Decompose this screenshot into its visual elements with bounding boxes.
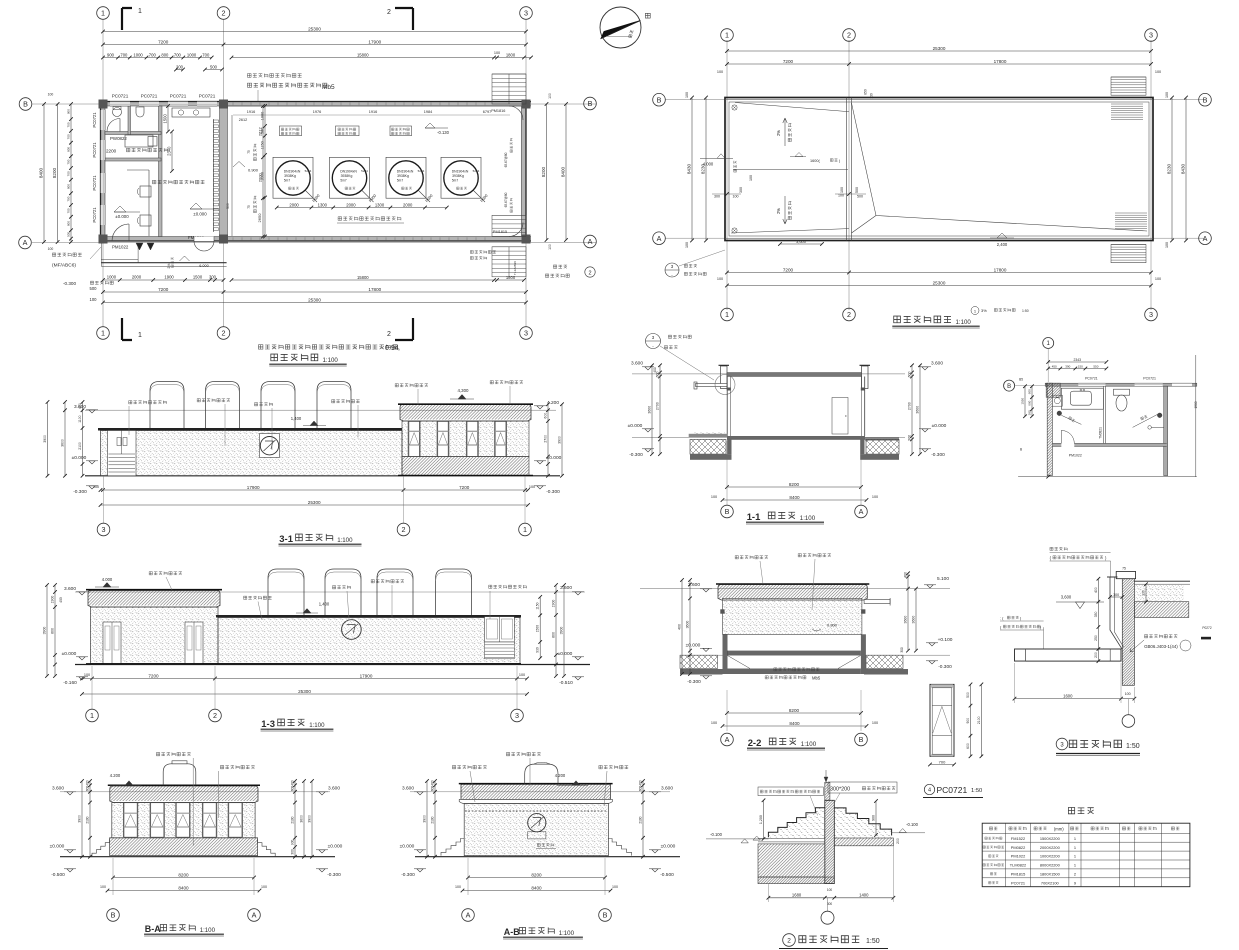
svg-text:B: B (588, 99, 593, 108)
canopy right note (1144, 635, 1177, 638)
svg-text:100: 100 (1165, 242, 1169, 248)
svg-text:25300: 25300 (298, 689, 311, 694)
svg-text:1-1: 1-1 (747, 512, 761, 523)
svg-text:1: 1 (101, 9, 105, 18)
roof main valley line upper (852, 103, 877, 216)
elev31 left dim chain (82, 402, 84, 476)
elev13 bubbles (91, 666, 93, 709)
svg-text:PM0822: PM0822 (1011, 845, 1026, 850)
svg-text:2%: 2% (776, 130, 781, 136)
elevBA left dims (89, 781, 91, 857)
grid bubble 2 bottom (217, 327, 230, 340)
floor plan grid row A line (32, 242, 596, 244)
svg-text:400: 400 (639, 780, 643, 786)
svg-text:2: 2 (1074, 872, 1076, 877)
svg-text:1000: 1000 (261, 112, 265, 120)
toilet sink (1070, 391, 1091, 405)
elevAB bubble B (599, 909, 612, 922)
grid bubble B left (19, 98, 32, 111)
plan top small dimensions row (103, 57, 212, 59)
svg-text:400: 400 (86, 780, 90, 786)
sect11 bottom dim 8400 (723, 499, 867, 501)
roof left dim 8230 (705, 98, 707, 241)
plan room store bench (125, 135, 153, 147)
svg-text:-0.300: -0.300 (687, 679, 701, 685)
roof bubble 3 top (1145, 29, 1158, 42)
svg-text:15800: 15800 (357, 52, 369, 57)
svg-text:100: 100 (548, 93, 552, 99)
svg-text:1680: 1680 (792, 893, 802, 898)
svg-text:2: 2 (402, 525, 406, 534)
stair right slab hatch (834, 838, 893, 846)
toilet window2 top wall (1135, 383, 1163, 386)
canopy slab end cap (1015, 649, 1026, 661)
sect11 bubble A (855, 505, 868, 518)
svg-text:8400: 8400 (39, 167, 44, 178)
north arrow circle (600, 7, 641, 48)
svg-text:-0.300: -0.300 (629, 452, 643, 458)
svg-text:2000: 2000 (132, 275, 142, 280)
svg-text:100: 100 (612, 885, 618, 889)
toilet mid partition (1102, 386, 1104, 444)
roof grid row B line (665, 99, 1205, 101)
svg-text:3.600: 3.600 (631, 361, 643, 367)
svg-text:75: 75 (1122, 567, 1126, 571)
toilet door knob right (1157, 413, 1162, 418)
elevAB stairs left (441, 839, 464, 856)
canopy wall hatch (1122, 579, 1134, 686)
plan office level mark (114, 206, 126, 212)
svg-text:800: 800 (552, 632, 556, 638)
canopy right dash mark (1201, 637, 1211, 640)
elevBA left levels (67, 792, 73, 795)
roof bottom dims 7200 17800 (727, 272, 1151, 274)
sect22 level line long (640, 588, 950, 590)
svg-text:3: 3 (1149, 310, 1153, 319)
svg-text:250: 250 (1094, 635, 1098, 641)
elevAB right levels (652, 792, 658, 795)
svg-text:±0.000: ±0.000 (686, 643, 701, 649)
svg-text:100: 100 (100, 885, 106, 889)
windet outer frame (930, 684, 954, 756)
table row 1 (985, 837, 1002, 840)
tank T4 box (441, 157, 481, 198)
svg-text:100: 100 (685, 242, 689, 248)
svg-text:B: B (1203, 95, 1208, 104)
plan left dimension 8200 (57, 104, 59, 242)
svg-text:+0.100: +0.100 (938, 637, 953, 643)
plan column at (103,239) (99, 235, 108, 244)
sect22 left dims (689, 580, 691, 674)
svg-text:1984: 1984 (424, 110, 432, 114)
hall vertical dim mid (264, 106, 266, 237)
svg-text:500: 500 (857, 195, 863, 199)
roof grid line 1 (726, 40, 728, 310)
svg-text:2200: 2200 (106, 149, 117, 154)
svg-text:3-1: 3-1 (279, 534, 293, 545)
elev13 long wall stipple (218, 618, 520, 664)
roof left slope diagonal bottom (731, 229, 849, 233)
canopy 300 dim (1110, 596, 1122, 598)
svg-text:75: 75 (247, 205, 251, 209)
svg-text:100: 100 (840, 187, 844, 193)
svg-text:DN1904xN: DN1904xN (397, 170, 414, 174)
svg-text:3.600: 3.600 (52, 786, 64, 792)
svg-text:4.200: 4.200 (110, 773, 121, 778)
svg-text:100: 100 (455, 885, 461, 889)
sect11 canopy callout (646, 334, 661, 349)
plan office chair 2 (140, 215, 151, 226)
elevBA bubble B (107, 909, 120, 922)
svg-text:8200: 8200 (178, 872, 189, 877)
grid bubble 1 top (97, 7, 110, 20)
sect22 bubble B (855, 733, 868, 746)
svg-text:3900: 3900 (423, 815, 427, 823)
plan note above mb5 line1 (247, 74, 301, 78)
svg-text:8200: 8200 (531, 872, 542, 877)
toilet bottom section line (1018, 476, 1197, 478)
svg-text:3.600: 3.600 (402, 786, 414, 792)
plan toilet wall horizontal (105, 132, 161, 135)
svg-text:7200: 7200 (783, 59, 794, 64)
elev13 base line (86, 663, 521, 665)
svg-text:8230: 8230 (1167, 163, 1172, 174)
svg-text:600: 600 (908, 372, 912, 378)
plan room2 wall horizontal (105, 158, 161, 161)
svg-text:1,400: 1,400 (319, 602, 330, 607)
elev31 ground line (85, 475, 560, 477)
svg-text:6.000: 6.000 (199, 264, 209, 268)
elevAB parapet hatch (461, 784, 610, 799)
svg-text:PC0721: PC0721 (1011, 880, 1025, 885)
svg-text:1:100: 1:100 (559, 930, 575, 937)
elev13 right levels (575, 592, 581, 595)
tank T1 circle (276, 161, 310, 195)
stair left steps (768, 808, 824, 837)
plan note leader (257, 90, 259, 101)
elev13 left block wall stipple (91, 607, 219, 664)
section marker 1 top (122, 8, 132, 30)
elev31 leader texts (129, 401, 167, 404)
svg-text:8400: 8400 (789, 721, 800, 726)
svg-text:1: 1 (725, 31, 729, 40)
svg-text:: (: : ( (1000, 617, 1004, 621)
svg-text:100: 100 (711, 495, 717, 499)
sect22 bottom dim 8200 (727, 712, 861, 714)
elevAB bubble A (462, 909, 475, 922)
sect22 leader texts top (735, 556, 768, 559)
grid bubble 3 bottom (520, 327, 533, 340)
elev13 tanks x4 flat dome (268, 569, 304, 615)
svg-text:850: 850 (864, 89, 868, 95)
plan outer wall top (101, 102, 532, 107)
plan left dimension chain (70, 104, 72, 242)
svg-text:±0.000: ±0.000 (193, 212, 207, 217)
roof slope arrow 2% up (783, 118, 787, 146)
canopy top note (1050, 547, 1067, 550)
plan right stairs bottom outside (492, 247, 526, 277)
canopy roof small dim (1145, 584, 1147, 602)
table row 5 (990, 873, 996, 875)
svg-text:DN1904xN: DN1904xN (340, 170, 357, 174)
plan outer wall right (522, 102, 527, 242)
svg-text:5254: 5254 (361, 169, 368, 173)
svg-text:B-A: B-A (145, 924, 161, 934)
elevAB emblem (528, 814, 546, 832)
svg-text:1800X1500: 1800X1500 (1040, 872, 1061, 877)
plan toilet fixture WC (113, 108, 122, 117)
elev31 level line 3.600 long (85, 409, 556, 411)
svg-text:): ) (1040, 626, 1042, 630)
svg-text:3: 3 (652, 335, 655, 340)
svg-text:8430: 8430 (1181, 163, 1186, 174)
svg-text:500: 500 (966, 692, 970, 698)
svg-text:700: 700 (174, 52, 182, 57)
svg-text:0.94: 0.94 (385, 345, 399, 352)
svg-text:25300: 25300 (933, 46, 946, 51)
svg-text:-0.500: -0.500 (660, 872, 674, 878)
svg-text:100: 100 (48, 247, 54, 251)
elev31 left level 0.000 (89, 461, 95, 464)
elev31 office wall stipple (402, 421, 529, 457)
elev31 office cornice hatched (400, 405, 531, 420)
plan right door arc top (509, 106, 523, 120)
svg-text:700: 700 (67, 122, 71, 127)
svg-text:100: 100 (548, 244, 552, 250)
elev13 long wall top thick (216, 615, 521, 618)
svg-text:5.100: 5.100 (937, 576, 949, 582)
svg-text:1800: 1800 (506, 52, 516, 57)
svg-text:1500: 1500 (1194, 401, 1198, 408)
sect11 interior door (832, 398, 848, 435)
svg-text:3: 3 (524, 9, 528, 18)
elevAB parapet molding (459, 799, 612, 803)
svg-text:2000: 2000 (289, 202, 299, 207)
svg-text:2100: 2100 (86, 816, 90, 823)
svg-text:±0.000: ±0.000 (72, 455, 87, 461)
svg-text:A: A (252, 911, 257, 920)
svg-text:3938Kg: 3938Kg (284, 174, 296, 178)
svg-text:1000: 1000 (133, 52, 143, 57)
svg-text:2100: 2100 (291, 816, 295, 823)
elev13 right louver (485, 642, 515, 659)
roof parapet mid lines (725, 99, 1153, 101)
svg-text:450: 450 (1052, 364, 1057, 368)
svg-text:3600: 3600 (904, 616, 908, 624)
svg-text:1:100: 1:100 (801, 741, 817, 748)
elev31 right dim chain (547, 404, 549, 476)
svg-text:3600: 3600 (686, 621, 690, 629)
svg-text:2: 2 (787, 938, 791, 945)
elevAB left dims (434, 781, 436, 857)
svg-text:3.600: 3.600 (328, 786, 340, 792)
svg-text:-0.300: -0.300 (73, 489, 87, 495)
svg-text:3600: 3600 (912, 616, 916, 624)
roof left slope diagonal top (735, 103, 849, 112)
svg-text:2650: 2650 (257, 213, 262, 223)
svg-text:300: 300 (739, 187, 743, 193)
windet open triangle (933, 706, 951, 733)
elev31 roof line hall thick (98, 428, 402, 431)
svg-text:A-B: A-B (504, 927, 520, 937)
svg-text:700: 700 (939, 759, 946, 764)
canopy top leader (1110, 561, 1112, 578)
plan outer wall bottom (101, 237, 532, 242)
svg-text:8200: 8200 (52, 167, 57, 178)
toilet grid bubble B (1004, 380, 1015, 391)
svg-text:1: 1 (1047, 341, 1051, 347)
windet dims right (970, 684, 972, 756)
svg-text:1500: 1500 (163, 113, 168, 123)
tank T3 box (386, 157, 426, 198)
svg-text:2: 2 (387, 331, 391, 338)
plan bottom dims 7200 17800 (103, 291, 526, 293)
svg-text:-0.300: -0.300 (938, 664, 952, 670)
tank T1 leader (305, 190, 317, 202)
toilet cut line right (1195, 355, 1197, 477)
svg-text:1: 1 (1074, 863, 1076, 868)
plan top dimension 15800 right (232, 57, 532, 59)
svg-text:1:100: 1:100 (800, 515, 816, 522)
svg-text:2700: 2700 (544, 435, 548, 443)
svg-text:1900: 1900 (51, 596, 55, 604)
svg-text:4: 4 (928, 788, 931, 794)
sect11 left dims (659, 365, 661, 454)
svg-text:2: 2 (847, 31, 851, 40)
svg-text:1-3: 1-3 (261, 719, 275, 730)
svg-text:25300: 25300 (308, 297, 321, 302)
svg-text:3,600: 3,600 (796, 239, 807, 244)
plan bottom dim 15800 (232, 279, 525, 281)
svg-text:1,400: 1,400 (291, 416, 302, 421)
svg-text:2000: 2000 (261, 172, 265, 180)
tank T4 leader (473, 190, 485, 202)
svg-text:A: A (466, 911, 471, 920)
svg-text:500: 500 (226, 203, 230, 209)
sect22 ground hatch left (680, 655, 718, 668)
sect22 under strip right (864, 669, 908, 675)
svg-text:3%: 3% (981, 308, 987, 313)
svg-text:3: 3 (524, 329, 528, 338)
hall interior dim chain 2000 1300 (277, 207, 447, 209)
svg-text:4.200: 4.200 (555, 773, 566, 778)
svg-text:PM1022: PM1022 (1011, 854, 1026, 859)
elev31 bubbles (103, 476, 105, 523)
floor plan grid line 1 (102, 19, 104, 327)
svg-text:800: 800 (67, 147, 71, 152)
plan double door grid2 bottom (194, 237, 214, 242)
svg-text:A: A (1203, 234, 1208, 243)
svg-text:1:50: 1:50 (1126, 743, 1140, 750)
svg-text:100: 100 (717, 277, 723, 281)
elevBA stairs right (258, 839, 276, 857)
svg-text:7200: 7200 (783, 267, 794, 272)
plan right stairs bottom inside (492, 215, 526, 236)
toilet wc (1114, 389, 1130, 395)
svg-text:PC0721: PC0721 (92, 175, 97, 191)
svg-text:3938Kg: 3938Kg (341, 174, 353, 178)
svg-text:): ) (839, 159, 841, 163)
windet label (924, 784, 934, 794)
svg-text:B: B (657, 95, 662, 104)
sect22 floor slab (728, 651, 861, 656)
svg-text:2612: 2612 (239, 118, 247, 122)
sect11 bottom dim 8200 (727, 486, 861, 488)
svg-text:2700: 2700 (656, 402, 660, 410)
svg-text:7200: 7200 (158, 39, 169, 44)
plan windows left wall PC0721 rotated labels (101, 110, 106, 130)
windet mullions (932, 705, 952, 707)
toilet right wall mid (1164, 386, 1168, 475)
tank T3 leader (418, 190, 430, 202)
svg-text:1:100: 1:100 (200, 927, 216, 934)
elev31 right levels (537, 406, 543, 409)
table row 4 (983, 864, 1004, 867)
elevBA parapet hatch (110, 786, 258, 801)
sect11 detail circle (715, 375, 735, 395)
floor plan title (271, 354, 318, 361)
svg-text:1500: 1500 (536, 625, 540, 633)
north arrow needle (601, 21, 640, 39)
hall bottom wall window ticks (232, 237, 234, 240)
svg-text:3938Kg: 3938Kg (397, 174, 409, 178)
svg-text:TL1A2836: TL1A2836 (513, 261, 517, 275)
sect11 floor slab (727, 436, 865, 440)
svg-text:2-2: 2-2 (748, 738, 762, 749)
svg-text:1: 1 (1074, 854, 1076, 859)
svg-text:8400: 8400 (531, 885, 542, 890)
svg-text:5m7: 5m7 (397, 179, 403, 183)
grid bubble B right (584, 97, 597, 110)
svg-text:PC0721: PC0721 (112, 94, 129, 99)
roof stair hatch bottom inside (1115, 212, 1147, 214)
svg-text:400: 400 (904, 572, 908, 578)
elevBA ground line (60, 856, 335, 858)
svg-text:1000X2200: 1000X2200 (1040, 854, 1061, 859)
svg-text:100: 100 (872, 721, 878, 725)
grid bubble A left (19, 236, 32, 249)
plan room2 dim 1500 (167, 106, 169, 132)
svg-text:2100: 2100 (977, 716, 981, 724)
svg-text:2100: 2100 (431, 816, 435, 823)
plan toilet fixture basin (136, 107, 144, 117)
sect22 ground line (680, 654, 950, 656)
svg-text:B: B (603, 911, 608, 920)
roof stair hatch top outside (1111, 76, 1146, 78)
roof plan title (894, 316, 951, 323)
plan partition wall room1 (159, 106, 163, 237)
svg-text:3600: 3600 (916, 406, 920, 414)
svg-text:500: 500 (67, 232, 71, 237)
svg-text:8400: 8400 (789, 495, 800, 500)
plan room2 level mark (190, 203, 202, 209)
svg-text:100: 100 (749, 175, 753, 181)
elevBA bubble A (248, 909, 261, 922)
toilet corner column hatch (1046, 383, 1060, 397)
svg-text:A: A (725, 735, 730, 744)
svg-text:930: 930 (536, 647, 540, 653)
toilet top wall (1045, 383, 1197, 386)
svg-text:2%: 2% (167, 264, 171, 269)
svg-text:TLM0822: TLM0822 (1010, 863, 1026, 868)
elevBA bottom dims (113, 877, 254, 879)
table row 2 (983, 846, 1004, 849)
toilet window3 top wall (1172, 383, 1192, 386)
plan top sub dims 200 500 (176, 69, 183, 71)
elevBA wall stipple (112, 803, 255, 838)
svg-text:2,400: 2,400 (997, 242, 1008, 247)
toilet left dims (1031, 386, 1033, 416)
